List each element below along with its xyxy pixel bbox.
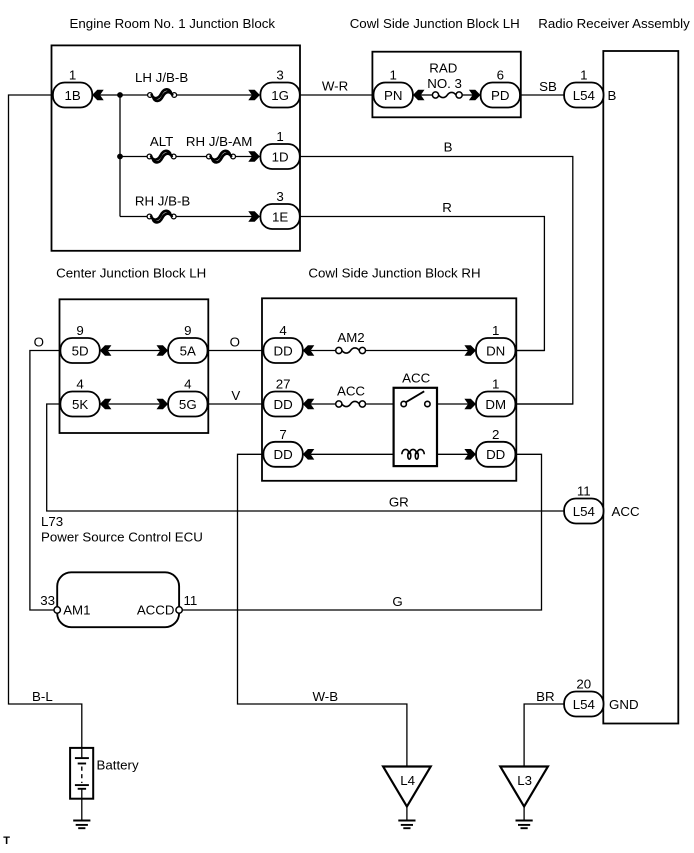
wire DD4 arrow to AM2 fuse [311,350,336,352]
svg-text:ACC: ACC [337,384,365,399]
connector PD pin 6 [481,68,520,108]
fusible link RH J/B-AM [207,151,236,162]
svg-text:NO. 3: NO. 3 [427,76,462,91]
svg-text:5K: 5K [72,397,88,412]
svg-text:DD: DD [273,343,292,358]
svg-text:1: 1 [389,68,396,83]
svg-text:4: 4 [279,323,286,338]
relay ACC switch contacts [401,391,430,406]
svg-text:Cowl Side Junction Block LH: Cowl Side Junction Block LH [350,16,520,31]
connector 5A pin 9 [168,323,207,363]
arrow into DN [464,345,476,356]
arrow into 1D [248,151,260,162]
svg-text:Engine Room No. 1 Junction Blo: Engine Room No. 1 Junction Block [70,16,276,31]
connector 5D pin 9 [60,323,99,363]
fuse AM2 [336,347,366,353]
wire 1E to DN (R net) [300,217,545,351]
relay ACC box [394,388,437,466]
svg-text:DN: DN [486,343,505,358]
ground triangle L4 [383,767,431,807]
wire 1B arrow to LH J/B-B link [100,94,148,96]
wire relay coil to DD2 arrow [424,453,468,455]
svg-text:PN: PN [384,88,402,103]
wire RAD NO. 3 fuse to PD arrow [462,94,472,96]
svg-text:27: 27 [276,377,291,392]
wire DD7 to ground L4 (W-B net) [238,454,407,766]
svg-text:L4: L4 [400,773,415,788]
arrow into 1G [248,90,260,101]
svg-text:9: 9 [184,323,191,338]
wire AM2 fuse to DN arrow [366,350,468,352]
arrow into DD pin 27 [303,399,315,410]
wire 5D arrow to 5A arrow [108,350,160,352]
svg-text:DD: DD [273,397,292,412]
svg-text:1: 1 [69,68,76,83]
svg-text:RH J/B-B: RH J/B-B [135,194,191,209]
svg-text:Center Junction Block LH: Center Junction Block LH [56,266,206,281]
svg-text:R: R [442,200,452,215]
svg-text:Battery: Battery [97,758,139,773]
svg-text:4: 4 [184,377,191,392]
connector 1D pin 1 [260,129,299,169]
wire 5K to L54 pin 11 (GR net) [47,404,564,511]
svg-text:DM: DM [485,397,506,412]
wire vertical branch inside engine room block [119,95,121,217]
svg-text:W-B: W-B [312,689,338,704]
svg-text:DD: DD [486,447,505,462]
svg-text:4: 4 [76,377,83,392]
svg-text:11: 11 [184,593,198,608]
wire L4 apex to ground [406,807,408,821]
wire branch to ALT link [120,156,150,158]
svg-text:T: T [3,835,10,847]
connector PN pin 1 [374,68,413,108]
svg-text:ACCD: ACCD [137,603,175,618]
svg-text:L3: L3 [517,773,532,788]
svg-text:1G: 1G [271,88,289,103]
arrow into 5D [100,345,112,356]
wire branch to RH J/B-B link [120,216,150,218]
svg-text:1: 1 [492,323,499,338]
svg-text:O: O [230,335,240,350]
svg-text:11: 11 [577,484,591,499]
svg-text:L54: L54 [573,88,595,103]
connector DD (7) pin 7 [263,427,302,467]
connector 5G pin 4 [168,377,207,417]
relay ACC coil [402,449,425,459]
Radio Receiver Assembly box [603,51,678,724]
svg-text:GND: GND [609,697,639,712]
connector 1G pin 3 [260,68,299,108]
svg-text:5D: 5D [72,343,89,358]
wire DD7 arrow to relay coil [311,453,402,455]
connector L54 (GND) pin 20 [564,677,603,717]
svg-text:9: 9 [76,323,83,338]
svg-text:1D: 1D [272,149,289,164]
wire DN to R net corner [516,350,545,352]
Cowl Side Junction Block RH box [262,298,516,481]
arrow into DD pin 4 [303,345,315,356]
svg-text:B: B [444,140,453,155]
arrow into PN [413,90,425,101]
svg-text:O: O [34,335,44,350]
svg-text:B-L: B-L [32,689,53,704]
svg-text:1E: 1E [272,209,288,224]
wire PN arrow to RAD NO. 3 fuse [421,94,432,96]
wire PD to L54 pin 1 (SB net) [520,94,564,96]
svg-text:ACC: ACC [612,504,640,519]
arrow into 5A [157,345,169,356]
svg-text:SB: SB [539,79,557,94]
svg-text:B: B [608,88,617,103]
wire 5G to DD pin 27 (V net) [208,403,264,405]
arrow into 5K [100,399,112,410]
ground below L3 [516,821,533,829]
svg-text:RH J/B-AM: RH J/B-AM [186,134,253,149]
wire DD27 arrow to ACC fuse [311,403,336,405]
ECU pin 11 ACCD [137,593,198,618]
Cowl Side Junction Block LH box [372,52,520,118]
wire 1B to battery (B-L net) [9,95,82,758]
svg-text:DD: DD [273,447,292,462]
connector DN pin 1 [476,323,515,363]
wire RH J/B-AM link to 1D arrow [234,156,253,158]
svg-text:2: 2 [492,427,499,442]
svg-text:1B: 1B [64,88,80,103]
connector DM pin 1 [476,377,515,417]
wire battery to ground [81,789,83,821]
arrow into 5G [157,399,169,410]
fuse ACC [336,401,366,407]
wire 5D to ECU AM1 (O net) [30,351,61,611]
svg-text:RAD: RAD [429,61,457,76]
wire 5K arrow to 5G arrow [108,403,160,405]
fuse RAD NO. 3 [432,92,462,98]
svg-text:5A: 5A [180,343,196,358]
Center Junction Block LH box [60,299,209,433]
svg-text:1: 1 [580,68,587,83]
arrow into 1E [248,211,260,222]
wire DM to B net corner [516,403,573,405]
arrow into DD pin 7 [303,449,315,460]
wire 1G to PN (W-R net) [300,94,373,96]
wire 5A to DD pin 4 (O net) [208,350,264,352]
connector 1E pin 3 [260,189,299,229]
fusible link RH J/B-B [147,211,176,222]
svg-text:L73: L73 [41,514,63,529]
svg-text:BR: BR [536,689,554,704]
arrow into DM [464,399,476,410]
wire ALT link to RH J/B-AM link [174,156,209,158]
svg-text:33: 33 [40,593,55,608]
wire ACC fuse to relay switch [366,403,401,405]
wire LH J/B-B link to 1G arrow [176,94,252,96]
svg-text:AM1: AM1 [63,603,90,618]
svg-text:20: 20 [576,677,591,692]
svg-text:GR: GR [389,495,409,510]
fusible link LH J/B-B [148,89,177,100]
wire L3 apex to ground [523,807,525,821]
fusible link ALT [147,151,176,162]
arrow into 1B [92,90,104,101]
ground below battery [73,821,90,829]
svg-text:5G: 5G [179,397,197,412]
svg-text:1: 1 [492,377,499,392]
connector L54 (ACC) pin 11 [564,484,603,524]
Engine Room No. 1 Junction Block box [52,45,301,250]
svg-text:1: 1 [276,129,283,144]
connector 1B pin 1 [53,68,92,108]
connector L54 (B) pin 1 [564,68,603,108]
connector DD (4) pin 4 [263,323,302,363]
svg-text:G: G [392,594,402,609]
svg-text:W-R: W-R [322,79,348,94]
svg-text:ACC: ACC [402,371,430,386]
svg-text:PD: PD [491,88,509,103]
svg-text:Cowl Side Junction Block RH: Cowl Side Junction Block RH [308,266,480,281]
connector 5K pin 4 [60,377,99,417]
svg-text:Radio Receiver Assembly: Radio Receiver Assembly [538,16,690,31]
ECU pin 33 AM1 [40,593,90,618]
ground below L4 [398,821,415,829]
wire DD2 to ECU ACCD (G net) [182,454,541,610]
arrow into DD pin 2 [464,449,476,460]
svg-text:LH J/B-B: LH J/B-B [135,70,188,85]
wire relay switch to DM arrow [430,403,468,405]
junction dot node at 1B branch [117,92,123,98]
svg-text:L54: L54 [573,504,595,519]
connector DD (27) pin 27 [263,377,302,417]
svg-text:AM2: AM2 [337,330,364,345]
svg-text:6: 6 [497,68,504,83]
junction dot node at ALT branch [117,154,123,160]
ground triangle L3 [500,767,548,807]
connector DD (2) pin 2 [476,427,515,467]
arrow into PD [469,90,481,101]
battery [70,748,93,799]
svg-text:L54: L54 [573,697,595,712]
wire 1D to DM (B net) [300,157,573,405]
svg-text:7: 7 [279,427,286,442]
wire RH J/B-B link to 1E arrow [174,216,252,218]
svg-text:V: V [231,388,240,403]
svg-text:Power Source Control ECU: Power Source Control ECU [41,530,203,545]
svg-text:3: 3 [276,68,283,83]
wire L54 pin 20 to ground L3 (BR net) [524,704,564,767]
svg-text:ALT: ALT [150,134,173,149]
ECU L73 body [57,572,179,627]
svg-text:3: 3 [276,189,283,204]
